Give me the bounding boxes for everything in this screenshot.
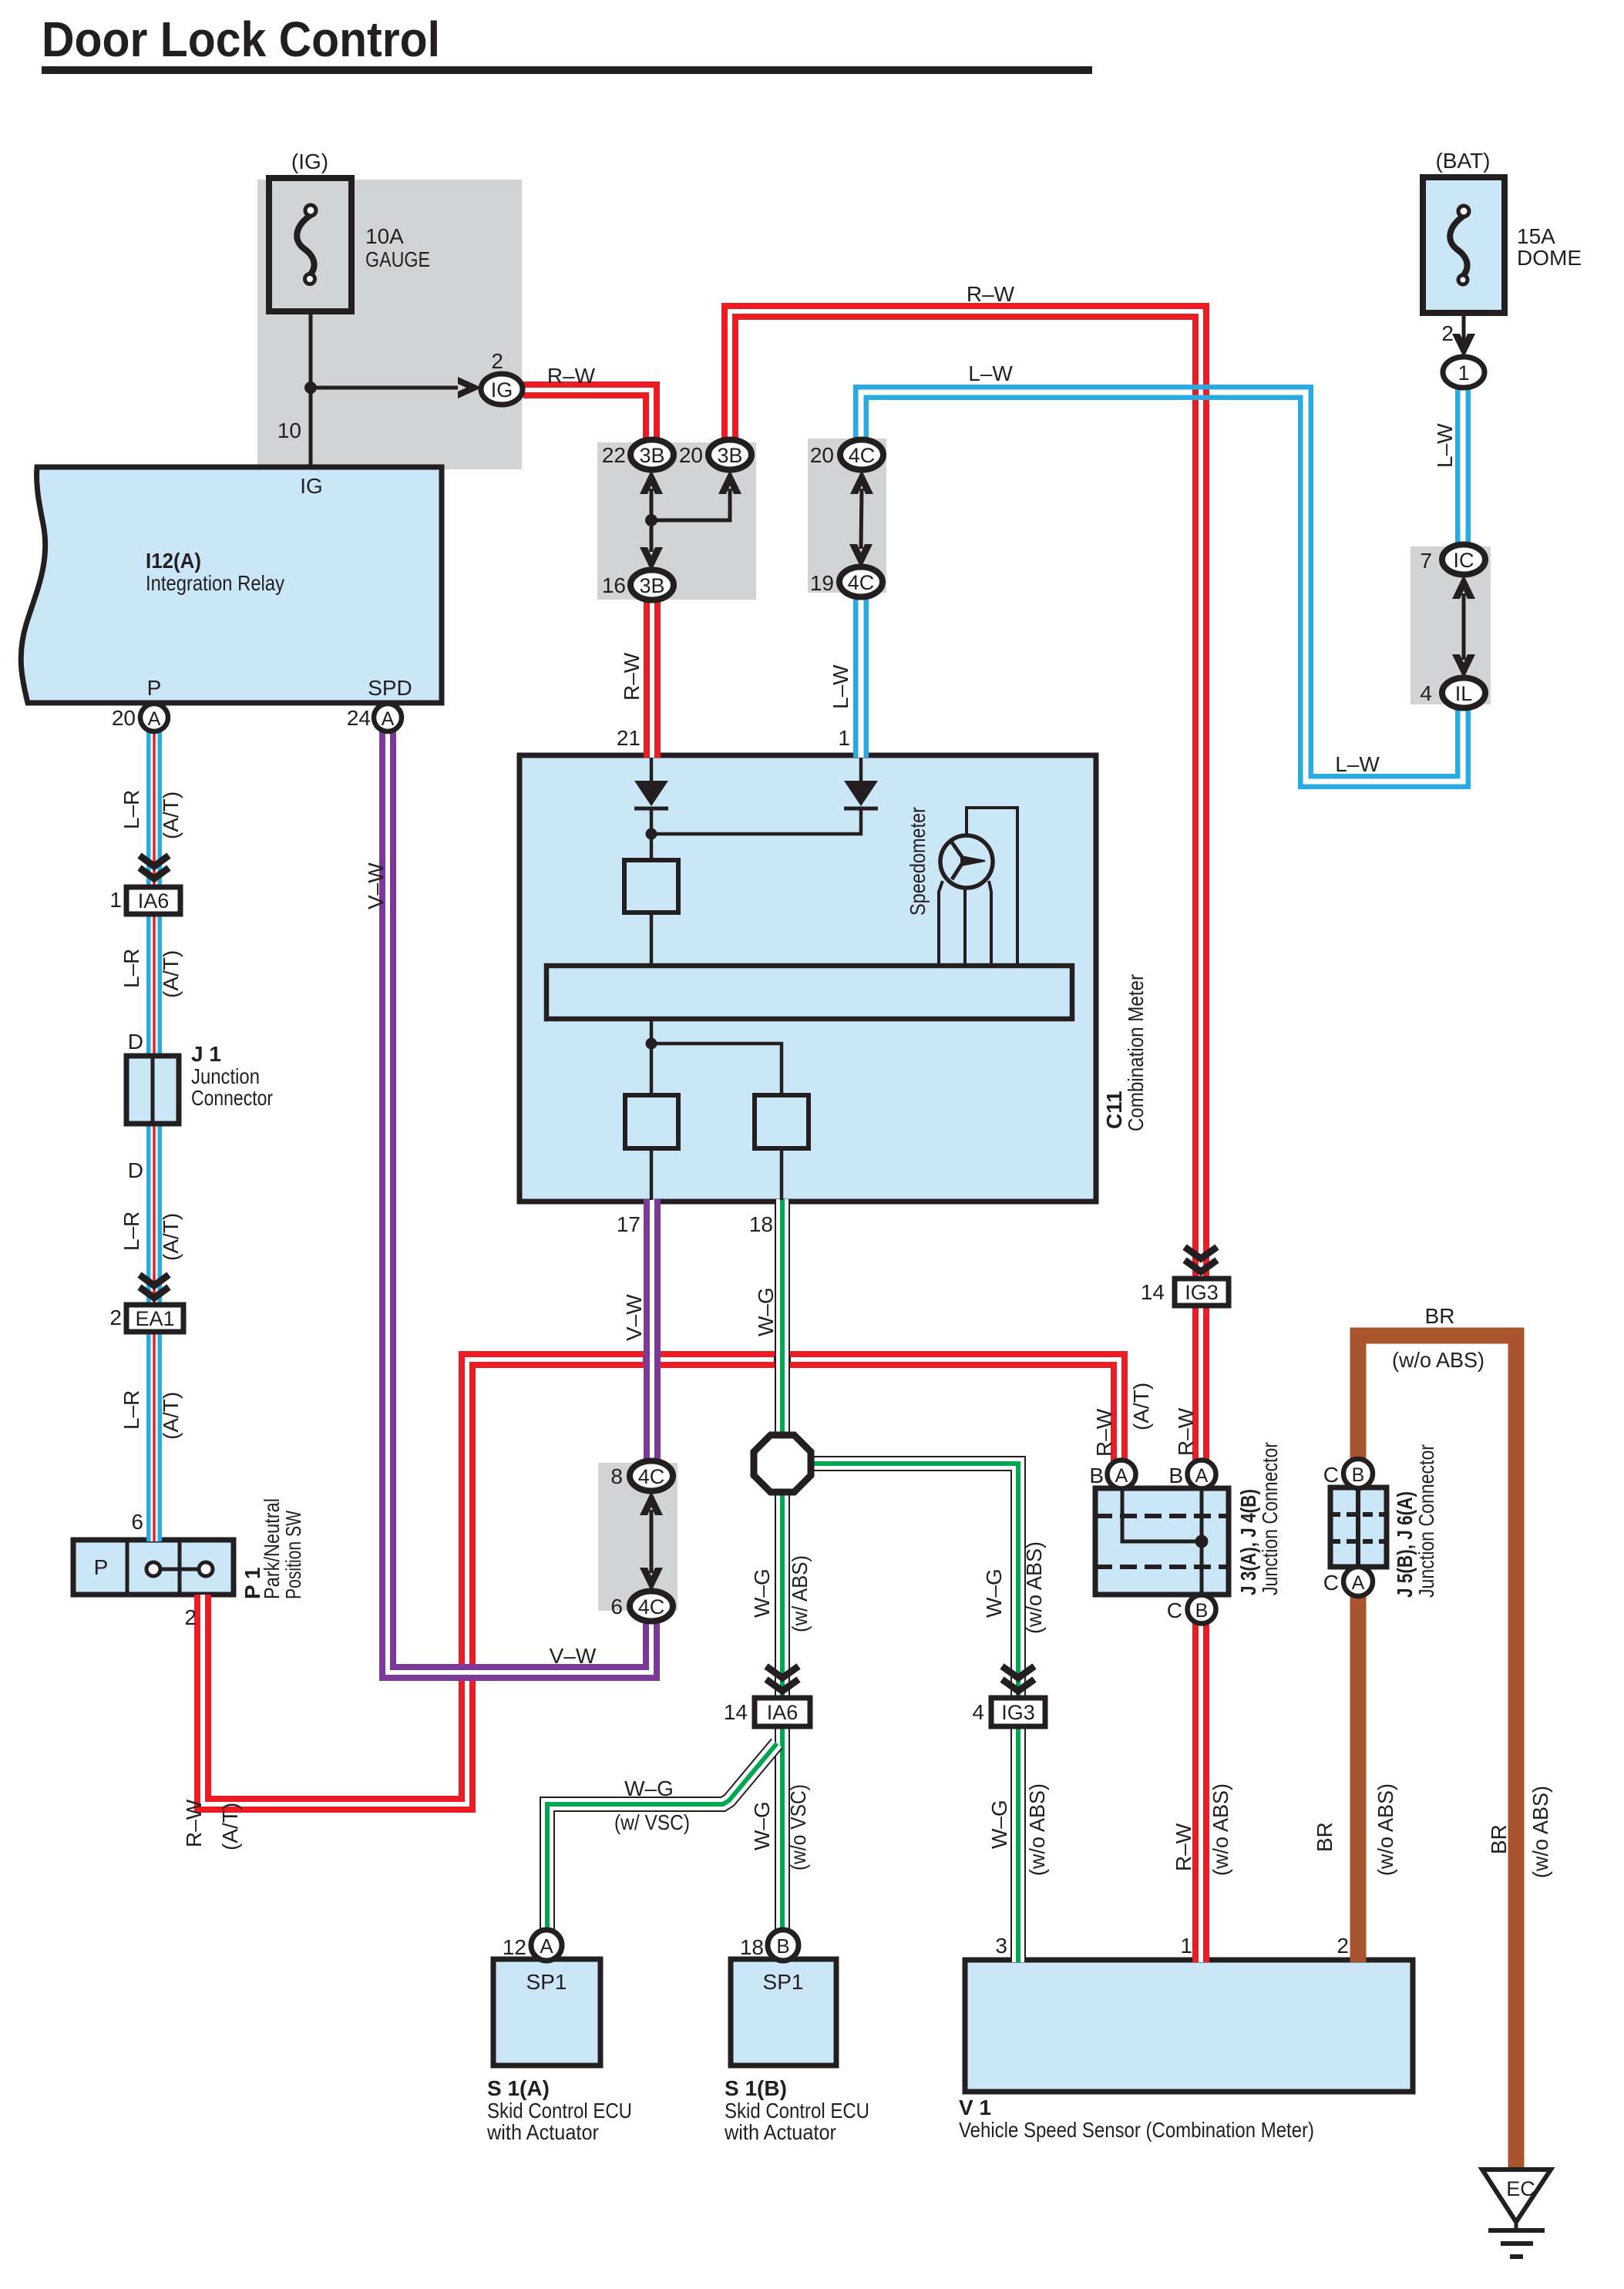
- arrow up into 4C pin 8: [640, 1491, 663, 1515]
- svg-text:W–G: W–G: [982, 1568, 1006, 1618]
- svg-text:SP1: SP1: [526, 1970, 567, 1994]
- svg-text:Park/Neutral: Park/Neutral: [260, 1498, 284, 1599]
- interconnect lines 3B block: [651, 489, 730, 552]
- svg-text:(A/T): (A/T): [159, 1392, 183, 1440]
- net label V-W (meter 17 wire): [622, 1294, 646, 1341]
- speedometer circle: [940, 835, 993, 888]
- svg-text:B: B: [1168, 1464, 1183, 1487]
- block C11 Combination Meter: [519, 755, 1096, 1202]
- wire L-W from DOME connector 1 to IC: [1455, 385, 1471, 547]
- patch: W-G visible through R-W gap at crossing (1015,1764): [774, 1357, 776, 1362]
- arrow up into IC: [1452, 575, 1475, 599]
- svg-text:W–G: W–G: [624, 1776, 674, 1800]
- wire R-W from J3/J4 pin B down to V1 pin 1: [1192, 1622, 1209, 1962]
- svg-text:1: 1: [838, 726, 850, 750]
- block ref C11 rotated: [1102, 1091, 1126, 1129]
- patch: V-W visible through R-W gap at crossing (845,1764): [643, 1357, 650, 1362]
- patch: R-W visible through L-W gap at crossing: [1192, 390, 1199, 395]
- svg-text:IG3: IG3: [1185, 1281, 1219, 1304]
- svg-text:2: 2: [184, 1605, 197, 1629]
- svg-text:6: 6: [610, 1595, 623, 1618]
- svg-text:Junction: Junction: [191, 1064, 260, 1088]
- svg-text:L–R: L–R: [119, 1212, 143, 1251]
- meter internal wires bottom: [651, 1019, 782, 1200]
- svg-text:1: 1: [1458, 361, 1469, 385]
- block P1 Park/Neutral Position SW: [73, 1540, 234, 1595]
- patch: V-W visible through R-W gap at crossing (606,2170): [465, 1664, 469, 1670]
- fuse 15A DOME body: [1423, 177, 1505, 313]
- meter diode at pin 1: [844, 758, 878, 808]
- svg-text:EC: EC: [1506, 2177, 1535, 2200]
- svg-text:4: 4: [972, 1700, 984, 1724]
- net label R-W at long vertical: [1174, 1407, 1198, 1456]
- svg-text:16: 16: [602, 573, 626, 597]
- svg-text:(A/T): (A/T): [159, 1213, 183, 1261]
- connector 4C pin 6 oval: [630, 1592, 673, 1622]
- chevron arrows on W-G wire above IA6 (14): [766, 1666, 799, 1691]
- svg-text:R–W: R–W: [1172, 1823, 1195, 1871]
- connector IG3 pin 14 box: [1175, 1279, 1229, 1306]
- svg-text:14: 14: [724, 1700, 748, 1724]
- net label W-G (meter 18 wire): [754, 1287, 778, 1336]
- ground EC symbol: [1482, 2170, 1551, 2257]
- svg-text:17: 17: [617, 1212, 641, 1236]
- svg-text:IG3: IG3: [1001, 1701, 1035, 1724]
- meter junction dot 2: [646, 1038, 657, 1050]
- svg-text:4C: 4C: [848, 571, 875, 594]
- svg-text:(BAT): (BAT): [1435, 149, 1490, 173]
- arrow down into 4C pin 6: [640, 1568, 663, 1592]
- svg-text:R–W: R–W: [967, 282, 1015, 306]
- net label L-R (A/T) set 1: [119, 790, 143, 829]
- svg-text:C: C: [1167, 1598, 1182, 1622]
- connector 3B pin 16 oval: [630, 570, 674, 600]
- meter junction dot 1: [646, 829, 657, 840]
- wire W-G from octagon right to IG3 and V1 pin 3: [809, 1464, 1018, 1962]
- block S1(B) Skid Control ECU: [731, 1959, 836, 2065]
- svg-text:I12(A): I12(A): [146, 549, 201, 573]
- svg-text:6: 6: [131, 1510, 143, 1534]
- junction connector J3(A)/J4(B) box: [1095, 1488, 1229, 1595]
- wire BR from J5/J6 pin A down to V1 pin 2: [1350, 1595, 1367, 1962]
- shaded area around IC/IL junction block: [1410, 546, 1491, 704]
- block I12(A) Integration Relay: [21, 467, 442, 703]
- J5/J6 pin B (C row) top: [1343, 1459, 1373, 1488]
- block name Park/Neutral Position SW rotated: [260, 1498, 284, 1599]
- svg-text:V–W: V–W: [622, 1294, 646, 1341]
- svg-text:C11: C11: [1102, 1091, 1126, 1129]
- wire BR from J5/J6 pin B up, right, down to EC ground: [1358, 1336, 1516, 2170]
- block ref P 1 rotated: [240, 1567, 264, 1599]
- arrow down into IL: [1452, 654, 1475, 678]
- meter diode at pin 21: [634, 758, 668, 808]
- svg-text:R–W: R–W: [620, 652, 644, 701]
- connector IC pin 7 oval: [1442, 545, 1485, 575]
- svg-text:2: 2: [109, 1306, 122, 1329]
- svg-text:(w/o VSC): (w/o VSC): [786, 1784, 810, 1871]
- svg-text:(A/T): (A/T): [159, 792, 183, 839]
- shaded area around 4C junction block (upper): [808, 439, 886, 593]
- wire W-G (w/ VSC) branch from IA6 to S1(A) pin 12: [547, 1743, 777, 1931]
- wire fuse IG to relay pin 10 (black): [309, 311, 313, 469]
- svg-text:DOME: DOME: [1517, 246, 1582, 270]
- svg-text:IC: IC: [1454, 549, 1474, 572]
- net label W-G (w/o ABS) to V1: [987, 1800, 1011, 1849]
- chevron arrows on W-G wire above IG3 (4): [1002, 1666, 1034, 1691]
- svg-text:Junction Connector: Junction Connector: [1414, 1444, 1438, 1598]
- svg-text:1: 1: [109, 888, 122, 912]
- net label L-R (A/T) set 3: [119, 1212, 143, 1251]
- svg-text:10A: 10A: [365, 224, 404, 248]
- svg-text:with Actuator: with Actuator: [486, 2120, 599, 2144]
- svg-text:A: A: [148, 708, 161, 730]
- svg-text:IL: IL: [1455, 682, 1473, 705]
- svg-text:20: 20: [112, 706, 136, 730]
- svg-text:Door Lock Control: Door Lock Control: [42, 12, 440, 67]
- svg-text:V–W: V–W: [550, 1644, 597, 1668]
- svg-text:SP1: SP1: [763, 1970, 804, 1994]
- J5/J6 internal grid: [1330, 1487, 1387, 1567]
- svg-text:J 3(A), J 4(B): J 3(A), J 4(B): [1236, 1489, 1260, 1595]
- svg-text:R–W: R–W: [1174, 1407, 1198, 1456]
- svg-text:B: B: [1089, 1464, 1104, 1487]
- connector IA6 pin 14 box: [755, 1698, 810, 1726]
- svg-text:18: 18: [740, 1935, 764, 1959]
- svg-text:GAUGE: GAUGE: [365, 247, 430, 271]
- net label W-G (w/o ABS) right branch: [982, 1568, 1006, 1618]
- svg-text:14: 14: [1141, 1280, 1165, 1304]
- chevron arrows on L-R wire above IA6: [140, 855, 169, 879]
- meter bus bar: [546, 966, 1072, 1019]
- svg-text:L–W: L–W: [1335, 752, 1380, 776]
- J3/J4 pin A (B row) left: [1108, 1460, 1136, 1489]
- svg-text:(w/ VSC): (w/ VSC): [614, 1810, 690, 1834]
- svg-text:Vehicle Speed Sensor (Combinat: Vehicle Speed Sensor (Combination Meter): [959, 2118, 1314, 2142]
- svg-text:L–W: L–W: [1433, 423, 1457, 468]
- chevron arrows on L-R wire above EA1: [140, 1275, 169, 1298]
- net label L-W (4C to meter): [829, 664, 852, 709]
- S1(A) pin 12 A circle: [531, 1930, 562, 1961]
- P1 internal dividers: [127, 1540, 180, 1595]
- wire R-W (A/T) from P1 pin 2 to J3/J4 pin A left: [203, 1360, 1119, 1804]
- wire V-W from relay pin SPD down, right, up to 4C pin 6: [388, 729, 651, 1672]
- arrow up into 4C pin 20: [850, 470, 873, 494]
- wire R-W from 3B pin 16 to meter pin 21: [644, 598, 661, 758]
- S1(B) pin 18 B circle: [768, 1930, 799, 1961]
- chevron arrows on R-W wire above IG3 (14): [1185, 1247, 1217, 1272]
- J3/J4 pin A (B row) right: [1188, 1460, 1216, 1489]
- block S1(A) Skid Control ECU: [493, 1959, 600, 2065]
- block V1 Vehicle Speed Sensor: [965, 1960, 1413, 2092]
- net label W-G (w/ ABS): [750, 1568, 774, 1618]
- arrow into connector IG: [458, 377, 482, 398]
- svg-text:12: 12: [503, 1935, 526, 1959]
- svg-text:3B: 3B: [639, 574, 664, 597]
- svg-text:L–R: L–R: [119, 949, 143, 988]
- svg-text:Speedometer: Speedometer: [906, 807, 930, 916]
- net label R-W (A/T) at P1 wire: [182, 1799, 206, 1847]
- svg-text:W–G: W–G: [754, 1287, 778, 1336]
- meter internal wires top: [651, 808, 861, 860]
- svg-text:V 1: V 1: [959, 2096, 991, 2119]
- block name Combination Meter rotated: [1124, 974, 1148, 1131]
- svg-text:W–G: W–G: [987, 1800, 1011, 1849]
- arrow up into 3B pin 20: [718, 470, 741, 494]
- connector IL pin 4 oval: [1442, 678, 1485, 708]
- svg-text:BR: BR: [1425, 1304, 1455, 1328]
- svg-text:(A/T): (A/T): [218, 1803, 242, 1850]
- svg-text:W–G: W–G: [750, 1801, 774, 1850]
- arrow down into 4C pin 19: [849, 544, 873, 568]
- svg-text:Junction Connector: Junction Connector: [1258, 1442, 1282, 1595]
- wire L-W from IL down, left, up and to 4C pin 20: [861, 392, 1463, 781]
- svg-text:SPD: SPD: [368, 676, 412, 700]
- svg-text:B: B: [1195, 1600, 1209, 1622]
- svg-text:P: P: [94, 1555, 109, 1579]
- J3/J4 dashed bus lines: [1095, 1516, 1229, 1567]
- svg-text:with Actuator: with Actuator: [724, 2120, 836, 2144]
- svg-text:EA1: EA1: [135, 1307, 174, 1330]
- svg-text:1: 1: [1180, 1934, 1192, 1958]
- svg-text:IA6: IA6: [138, 889, 170, 913]
- interconnect line 4C block: [861, 489, 862, 549]
- speedometer leads: [939, 808, 1017, 966]
- connector 1 oval (DOME output): [1443, 357, 1484, 388]
- connector 4C pin 19 oval: [839, 567, 883, 597]
- shaded area around 4C junction block (lower): [598, 1463, 678, 1611]
- svg-text:IG: IG: [300, 474, 323, 498]
- svg-text:4: 4: [1420, 681, 1432, 705]
- svg-text:3B: 3B: [717, 444, 742, 467]
- svg-text:2: 2: [1441, 321, 1454, 345]
- wire R-W from IG connector to 3B pin 22: [523, 390, 651, 443]
- net label BR (w/o ABS) right vertical: [1487, 1824, 1511, 1854]
- interconnect line IC/IL: [1462, 593, 1466, 660]
- fuse 10A GAUGE element: [297, 205, 316, 284]
- svg-text:(w/o ABS): (w/o ABS): [1392, 1348, 1484, 1372]
- J3/J4 internal junction dot: [1195, 1535, 1209, 1548]
- junction connector J5(B)/J6(A) box: [1330, 1487, 1387, 1567]
- junction dot on IG fuse wire: [304, 381, 317, 394]
- junction dot 3B block: [645, 514, 657, 526]
- svg-text:4C: 4C: [638, 1595, 665, 1618]
- svg-text:A: A: [382, 708, 395, 730]
- fuse 10A GAUGE body: [269, 178, 351, 311]
- svg-text:C: C: [1323, 1571, 1339, 1595]
- meter resistor box 3: [755, 1095, 809, 1148]
- connector 3B pin 22 oval: [630, 440, 674, 470]
- svg-text:J 5(B), J 6(A): J 5(B), J 6(A): [1393, 1491, 1417, 1598]
- wire L-R (A/T) from relay pin P to P1 pin 6: [146, 729, 162, 1541]
- svg-text:22: 22: [602, 443, 626, 467]
- svg-text:8: 8: [610, 1464, 623, 1488]
- svg-text:J 1: J 1: [191, 1042, 221, 1066]
- svg-text:(w/o ABS): (w/o ABS): [1374, 1783, 1397, 1876]
- connector 4C pin 20 oval: [840, 440, 883, 470]
- svg-text:V–W: V–W: [364, 862, 388, 909]
- svg-text:Combination Meter: Combination Meter: [1124, 974, 1148, 1131]
- net label BR (w/o ABS) left vertical: [1313, 1822, 1337, 1852]
- connector 4C pin 8 oval: [630, 1461, 673, 1491]
- net label L-R (A/T) set 4: [119, 1390, 143, 1430]
- svg-text:IG: IG: [491, 378, 513, 402]
- svg-text:S 1(B): S 1(B): [725, 2076, 787, 2100]
- meter wire resistor1 to bus bar: [650, 913, 654, 966]
- svg-text:7: 7: [1420, 549, 1432, 573]
- svg-text:4C: 4C: [849, 444, 876, 467]
- svg-text:Integration Relay: Integration Relay: [146, 571, 284, 595]
- J5/J6 pin A (C row) bottom: [1343, 1567, 1373, 1596]
- connector IA6 pin 1 box: [126, 887, 180, 914]
- svg-text:20: 20: [679, 443, 703, 467]
- svg-text:A: A: [540, 1934, 553, 1958]
- svg-text:B: B: [776, 1934, 789, 1958]
- arrow into connector 1: [1452, 334, 1475, 358]
- net label R-W (w/o ABS) below J3/J4: [1172, 1823, 1195, 1871]
- svg-text:(IG): (IG): [291, 150, 328, 173]
- connector IG oval: [481, 374, 523, 405]
- wire L-W from 4C pin 19 to meter pin 1: [853, 595, 869, 758]
- fuse 15A DOME element: [1450, 206, 1469, 284]
- svg-text:A: A: [1115, 1465, 1128, 1487]
- svg-text:A: A: [1352, 1572, 1365, 1594]
- wire W-G from meter pin 18 to octagon splice: [775, 1199, 790, 1437]
- svg-text:B: B: [1352, 1464, 1365, 1486]
- svg-text:24: 24: [347, 706, 371, 730]
- svg-text:2: 2: [491, 349, 503, 373]
- svg-text:IA6: IA6: [767, 1701, 799, 1724]
- svg-text:15A: 15A: [1517, 224, 1555, 248]
- svg-text:BR: BR: [1313, 1822, 1337, 1852]
- svg-text:(w/o ABS): (w/o ABS): [1025, 1783, 1049, 1876]
- net label R-W (A/T) at J3/J4 left: [1092, 1408, 1116, 1457]
- svg-text:L–W: L–W: [968, 361, 1013, 385]
- svg-text:3B: 3B: [639, 444, 664, 467]
- net label R-W (3B to meter): [620, 652, 644, 701]
- svg-text:W–G: W–G: [750, 1568, 774, 1618]
- connector EA1 pin 2 box: [126, 1305, 183, 1332]
- junction connector J1: [126, 1056, 179, 1124]
- svg-text:21: 21: [617, 726, 641, 750]
- svg-text:S 1(A): S 1(A): [487, 2076, 550, 2100]
- svg-text:(A/T): (A/T): [159, 950, 183, 998]
- speedometer needle: [952, 842, 985, 879]
- svg-text:D: D: [128, 1158, 143, 1182]
- svg-text:R–W: R–W: [182, 1799, 206, 1847]
- svg-text:Skid Control ECU: Skid Control ECU: [725, 2099, 869, 2123]
- wire R-W from 3B pin 20 up and right to IG3 and J3/J4 pin A: [730, 311, 1201, 1462]
- svg-text:3: 3: [995, 1934, 1007, 1958]
- svg-text:A: A: [1195, 1465, 1209, 1487]
- svg-text:(A/T): (A/T): [1129, 1383, 1153, 1430]
- net label V-W (SPD wire): [364, 862, 388, 909]
- svg-text:L–W: L–W: [829, 664, 852, 709]
- svg-text:L–R: L–R: [119, 1390, 143, 1430]
- arrow down into 3B pin 16: [640, 547, 663, 571]
- shaded area around 3B junction block: [597, 442, 756, 600]
- svg-text:D: D: [128, 1030, 143, 1054]
- svg-text:P: P: [147, 676, 162, 700]
- svg-text:(w/o ABS): (w/o ABS): [1209, 1783, 1232, 1876]
- svg-text:2: 2: [1337, 1934, 1349, 1958]
- svg-text:(w/ ABS): (w/ ABS): [788, 1555, 812, 1632]
- svg-text:(w/o ABS): (w/o ABS): [1022, 1541, 1046, 1634]
- svg-text:R–W: R–W: [547, 364, 596, 388]
- svg-text:19: 19: [810, 571, 834, 595]
- P1 switch symbol: [146, 1562, 213, 1576]
- svg-text:18: 18: [749, 1212, 773, 1236]
- svg-text:Position SW: Position SW: [281, 1511, 305, 1599]
- meter resistor box 1: [624, 860, 678, 913]
- net label L-W (DOME wire): [1433, 423, 1457, 468]
- wire W-G from octagon down through IA6 to S1(B) pin 18: [775, 1491, 790, 1931]
- arrow up into 3B pin 22: [640, 470, 663, 494]
- svg-text:L–R: L–R: [119, 790, 143, 829]
- title underline: [42, 66, 1092, 74]
- J3/J4 pin B (C row) bottom: [1188, 1595, 1216, 1624]
- wire DOME fuse to connector 1 (black): [1462, 308, 1466, 347]
- svg-text:10: 10: [277, 418, 301, 442]
- svg-text:Skid Control ECU: Skid Control ECU: [487, 2099, 632, 2123]
- interconnect line 4C lower block: [650, 1510, 654, 1573]
- junction ref J 5(B), J 6(A) rotated: [1393, 1491, 1417, 1598]
- relay pin 20 A circle: [140, 704, 168, 731]
- svg-text:20: 20: [810, 443, 834, 467]
- meter resistor box 2: [625, 1095, 678, 1148]
- connector 3B pin 20 oval: [708, 440, 751, 470]
- junction ref J 3(A), J 4(B) rotated: [1236, 1489, 1260, 1595]
- wire V-W from meter pin 17 to 4C pin 8: [644, 1199, 661, 1463]
- J3/J4 internal wiring: [1122, 1488, 1202, 1595]
- connector IG3 pin 4 box: [991, 1698, 1045, 1726]
- svg-text:4C: 4C: [638, 1465, 665, 1488]
- octagon splice (noise filter): [754, 1435, 811, 1492]
- svg-text:Connector: Connector: [191, 1086, 273, 1110]
- relay pin 24 A circle: [374, 704, 402, 731]
- wire branch to connector IG (black): [311, 386, 458, 390]
- label Speedometer rotated: [906, 807, 930, 916]
- shaded area around fuse 10A GAUGE: [257, 180, 522, 469]
- svg-text:R–W: R–W: [1092, 1408, 1116, 1457]
- net label L-R (A/T) set 2: [119, 949, 143, 988]
- svg-text:BR: BR: [1487, 1824, 1511, 1854]
- svg-text:C: C: [1323, 1463, 1339, 1487]
- net label W-G (w/o VSC): [750, 1801, 774, 1850]
- svg-text:(w/o ABS): (w/o ABS): [1528, 1786, 1552, 1878]
